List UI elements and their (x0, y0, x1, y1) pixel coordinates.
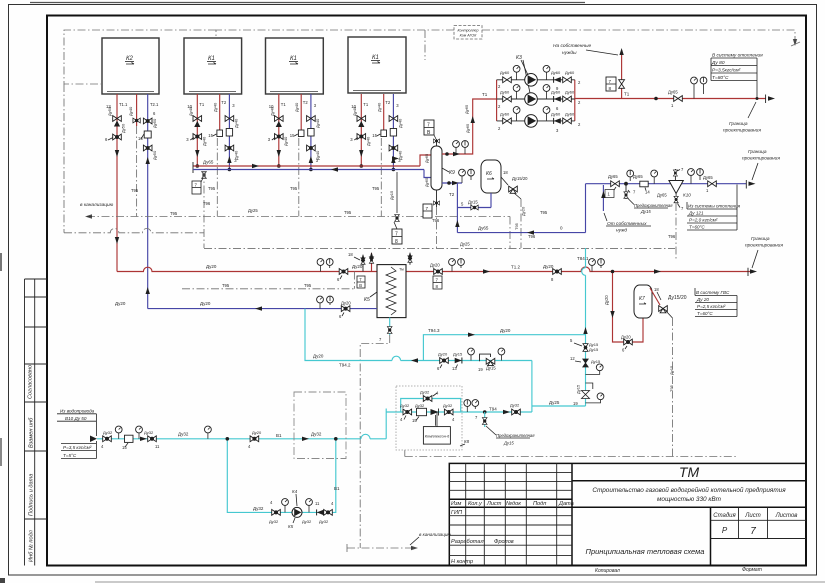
T94.1 riser with pressure regulator stack (570, 248, 604, 406)
strainer blowdown drain (675, 203, 677, 260)
svg-text:Граница: Граница (748, 149, 767, 155)
komplexon unit (396, 386, 470, 450)
boundary label (T1.2) (745, 236, 783, 268)
svg-text:Ду20: Ду20 (115, 301, 126, 306)
svg-text:Из водопровода: Из водопровода (60, 409, 95, 414)
K3 pump group (3 parallel pumps) (497, 55, 575, 121)
svg-text:Формат: Формат (742, 567, 762, 573)
svg-text:Ду65: Ду65 (464, 104, 469, 114)
svg-text:К10: К10 (683, 193, 691, 198)
long drain along title block (405, 450, 737, 457)
svg-text:Ду20: Ду20 (621, 335, 631, 340)
svg-text:Ду50: Ду50 (121, 123, 126, 133)
svg-text:в канализацию: в канализацию (419, 532, 451, 537)
svg-text:Ду32: Ду32 (415, 403, 425, 408)
blue boiler return header (193, 167, 431, 177)
svg-text:Т95: Т95 (304, 283, 312, 288)
T94.2 line (305, 309, 532, 412)
svg-text:Н контр: Н контр (451, 559, 473, 565)
controller box (454, 26, 482, 40)
boiler K1 #3 (266, 38, 324, 94)
K7 DHW tank (634, 285, 687, 457)
svg-text:Ду60: Ду60 (551, 70, 561, 75)
svg-text:К5: К5 (288, 524, 294, 529)
svg-text:Т=60°С: Т=60°С (697, 311, 713, 316)
svg-text:Т95: Т95 (540, 210, 548, 215)
svg-text:Ду15: Ду15 (576, 384, 581, 394)
svg-text:В систему ГВС: В систему ГВС (696, 290, 730, 295)
K6 expansion tank (457, 160, 528, 248)
svg-text:№док: №док (506, 501, 521, 507)
svg-text:Граница: Граница (729, 121, 748, 127)
booster pump loop K4 (226, 437, 341, 529)
dash-dot box (294, 392, 346, 459)
svg-text:Ду20: Ду20 (252, 430, 262, 435)
svg-text:Т96: Т96 (528, 234, 536, 239)
svg-text:12: 12 (570, 356, 575, 361)
svg-text:Комплексон-6: Комплексон-6 (425, 435, 450, 439)
flag 7/8 below header (389, 172, 402, 245)
svg-text:проектирования: проектирования (723, 129, 761, 134)
svg-text:мощностью 330 кВт: мощностью 330 кВт (657, 496, 722, 503)
svg-text:Ду65: Ду65 (633, 174, 643, 179)
svg-text:Ду32: Ду32 (103, 430, 113, 435)
svg-text:Ду32: Ду32 (144, 430, 154, 435)
svg-text:Ду15: Ду15 (669, 365, 674, 375)
svg-text:Ду20: Ду20 (313, 354, 324, 359)
pump row 3 (498, 107, 581, 133)
from own needs branch (601, 185, 651, 234)
svg-text:Ду20: Ду20 (352, 264, 363, 269)
svg-text:Подпись и дата: Подпись и дата (29, 474, 35, 516)
svg-text:19: 19 (573, 401, 578, 406)
svg-text:Ду50: Ду50 (152, 118, 157, 128)
svg-text:Ду65: Ду65 (203, 160, 214, 165)
svg-text:19: 19 (478, 367, 483, 372)
T94.3 line (423, 328, 585, 361)
svg-text:Ду20: Ду20 (438, 352, 448, 357)
svg-text:Ду20: Ду20 (430, 263, 440, 268)
boiler 4 drops (350, 94, 402, 217)
svg-text:Ду65: Ду65 (668, 90, 678, 95)
svg-text:В: В (359, 283, 362, 288)
svg-text:Т1: Т1 (482, 92, 488, 97)
svg-text:Контроллер: Контроллер (457, 29, 478, 33)
svg-text:Т96: Т96 (203, 201, 211, 206)
svg-text:Ду15: Ду15 (640, 209, 651, 214)
svg-text:Ду32: Ду32 (253, 506, 264, 511)
drain header A to sewer (80, 186, 548, 248)
svg-text:Ду60: Ду60 (500, 90, 510, 95)
svg-text:Т94.2: Т94.2 (339, 363, 351, 368)
svg-text:Ду15: Ду15 (468, 200, 478, 205)
svg-text:Ду25: Ду25 (248, 208, 258, 213)
svg-text:P=2,5 кгс/см²: P=2,5 кгс/см² (697, 304, 726, 309)
svg-text:Копировал: Копировал (595, 568, 620, 574)
svg-text:Дата: Дата (558, 501, 574, 507)
svg-text:К7: К7 (639, 296, 645, 302)
svg-text:Т95: Т95 (208, 186, 216, 191)
svg-text:Ду40: Ду40 (128, 106, 133, 116)
LEFT STAMP COLUMN (25, 279, 48, 566)
svg-text:Ду50: Ду50 (152, 150, 157, 160)
svg-text:Т1.1: Т1.1 (119, 102, 128, 107)
heating supply table (711, 53, 763, 101)
svg-text:К5: К5 (364, 297, 370, 303)
svg-text:P=3,5 кгс/см²: P=3,5 кгс/см² (63, 445, 92, 450)
svg-text:Ду15: Ду15 (389, 190, 394, 200)
svg-text:Тм: Тм (399, 268, 404, 272)
svg-text:Ду65: Ду65 (657, 193, 667, 198)
svg-text:Т95: Т95 (290, 186, 298, 191)
svg-text:Ду65: Ду65 (478, 226, 489, 231)
svg-text:18: 18 (348, 252, 353, 257)
svg-text:18: 18 (503, 170, 508, 175)
svg-text:Т95: Т95 (131, 188, 139, 193)
water inlet table (57, 409, 96, 459)
svg-text:Ду60: Ду60 (565, 112, 575, 117)
svg-text:Т95: Т95 (344, 210, 352, 215)
svg-text:Граница: Граница (751, 236, 770, 242)
svg-text:Принципиальная тепловая схема: Принципиальная тепловая схема (586, 547, 705, 556)
svg-text:Ду65: Ду65 (703, 175, 713, 180)
svg-text:Ду60: Ду60 (500, 112, 510, 117)
boiler K1 #2 (184, 38, 242, 94)
svg-text:Ду32: Ду32 (319, 519, 329, 524)
svg-text:P=2,0 кгс/см²: P=2,0 кгс/см² (689, 218, 718, 223)
svg-text:К4: К4 (292, 489, 298, 494)
svg-text:Т95: Т95 (372, 186, 380, 191)
svg-text:Предохранителная: Предохранителная (496, 433, 535, 438)
svg-text:Т84.1: Т84.1 (577, 256, 589, 261)
svg-text:Ду65: Ду65 (608, 174, 618, 179)
red boiler supply header (192, 155, 431, 248)
svg-text:Фролов: Фролов (494, 539, 514, 545)
svg-text:в канализацию: в канализацию (80, 203, 114, 208)
blue T2 line from K9 to return main (449, 183, 460, 233)
svg-text:К6: К6 (486, 171, 492, 177)
svg-text:Ду65: Ду65 (424, 177, 429, 187)
svg-text:Ду50: Ду50 (107, 106, 112, 116)
svg-text:ГИП: ГИП (451, 510, 463, 516)
svg-text:Ду25: Ду25 (549, 400, 560, 405)
pump row 2 (498, 85, 581, 111)
boiler K2 supply drop (red, down to T1.2) (105, 94, 128, 272)
cyan cold water main (90, 409, 386, 451)
boundary label (return) (742, 149, 780, 180)
svg-text:Т95: Т95 (669, 384, 674, 392)
svg-text:Ду15: Ду15 (589, 347, 599, 352)
svg-text:Т96: Т96 (432, 218, 440, 223)
svg-text:Т1: Т1 (624, 92, 630, 97)
svg-text:Т=60°С: Т=60°С (689, 225, 705, 230)
svg-text:8: 8 (395, 239, 398, 245)
svg-text:Ду32: Ду32 (443, 403, 453, 408)
svg-text:15: 15 (412, 418, 417, 423)
dark blue return of DHW exchanger (115, 296, 377, 319)
red branch to K7 DHW tank (604, 270, 643, 353)
svg-text:На собственные: На собственные (553, 43, 591, 49)
svg-text:8: 8 (609, 86, 612, 91)
boiler K2 middle drain drop (128, 94, 140, 217)
svg-text:Подп: Подп (533, 501, 546, 507)
svg-text:ТМ: ТМ (679, 464, 700, 480)
svg-text:Ду15/20: Ду15/20 (512, 176, 528, 181)
sewer line bottom (347, 456, 451, 552)
K9 bottom drain (436, 190, 438, 207)
svg-text:Ду32: Ду32 (420, 390, 430, 395)
red T1.2 line (DHW boiler circuit) (117, 252, 757, 289)
svg-text:Ду32: Ду32 (400, 403, 410, 408)
svg-text:Изм: Изм (451, 501, 462, 507)
heating return table (687, 185, 741, 231)
boiler 3 drops (268, 94, 320, 217)
svg-text:Т94: Т94 (489, 407, 497, 412)
svg-text:Ду20: Ду20 (206, 264, 217, 269)
TITLE BLOCK (449, 463, 806, 565)
boiler K2 return drop (blue, down to y308.6) (138, 94, 159, 309)
svg-text:Ду65: Ду65 (424, 153, 429, 163)
svg-text:Ду20: Ду20 (604, 295, 609, 305)
svg-text:Ду60: Ду60 (565, 90, 575, 95)
svg-text:Ду15: Ду15 (591, 359, 601, 364)
svg-text:7: 7 (609, 79, 612, 84)
svg-text:Т2.1: Т2.1 (150, 102, 159, 107)
svg-text:Ду25: Ду25 (460, 242, 470, 247)
svg-text:нужды: нужды (562, 50, 577, 56)
K5 bottom drain to T94.2 (360, 318, 392, 457)
strainer K10 (669, 181, 683, 194)
svg-text:Ду60: Ду60 (551, 90, 561, 95)
svg-text:Т=5°С: Т=5°С (63, 453, 77, 458)
svg-text:11: 11 (315, 501, 320, 506)
svg-text:Т95: Т95 (170, 211, 178, 216)
svg-text:Р: Р (722, 526, 728, 535)
svg-text:Ду20: Ду20 (500, 328, 511, 333)
safety drop on komplexon line (475, 410, 535, 445)
controller signal lines (64, 30, 795, 233)
svg-text:Ду60: Ду60 (551, 112, 561, 117)
svg-text:В1: В1 (334, 486, 340, 491)
svg-text:11: 11 (155, 444, 160, 449)
svg-text:Из системы отопления: Из системы отопления (688, 204, 741, 209)
svg-text:К9: К9 (449, 170, 455, 176)
boiler K1 #4 (348, 37, 406, 93)
svg-text:Строительство газовой водогрей: Строительство газовой водогрейной котель… (592, 486, 786, 494)
svg-text:проектирования: проектирования (742, 157, 780, 162)
svg-text:Ду 121: Ду 121 (688, 211, 704, 216)
svg-text:Ду15: Ду15 (503, 441, 514, 446)
K9 right top stub to pumps riser (442, 99, 497, 154)
svg-text:7: 7 (427, 123, 430, 129)
svg-text:проектирования: проектирования (745, 244, 783, 249)
boiler K2 (102, 38, 159, 94)
boiler 2 drops (186, 94, 238, 217)
drain header B (64, 229, 675, 249)
svg-text:нужд: нужд (616, 228, 627, 234)
svg-text:Ду20: Ду20 (521, 206, 526, 216)
svg-text:Т94.3: Т94.3 (428, 328, 440, 333)
svg-text:Согласовано: Согласовано (28, 365, 34, 399)
red supply line to heating system (575, 77, 775, 108)
svg-text:Лист: Лист (486, 501, 502, 507)
svg-text:7: 7 (750, 526, 756, 537)
svg-text:Ду60: Ду60 (500, 70, 510, 75)
svg-text:Ду20: Ду20 (341, 301, 351, 306)
svg-text:7: 7 (395, 232, 398, 238)
DHW table (695, 288, 737, 317)
scan mark bottom edge (95, 581, 825, 583)
svg-text:Т95: Т95 (514, 222, 519, 230)
K9 right bottom stub (442, 182, 462, 184)
scan mark top (30, 2, 585, 4)
svg-text:Ду 20: Ду 20 (696, 297, 709, 302)
return line components (605, 167, 716, 392)
svg-text:Т1.2: Т1.2 (511, 265, 521, 270)
K5 heat exchanger (182, 252, 412, 318)
pump row 1 (498, 65, 581, 91)
blue return main from system (457, 180, 755, 235)
svg-text:Ком АГОК: Ком АГОК (460, 34, 478, 38)
svg-text:15: 15 (122, 445, 127, 450)
own-needs branch (553, 43, 625, 99)
K9 separator vessel (423, 99, 497, 248)
svg-text:7: 7 (426, 206, 429, 211)
komplexon dosing line (386, 390, 585, 426)
svg-text:Ду15: Ду15 (453, 352, 463, 357)
svg-text:Стадия: Стадия (713, 513, 736, 519)
svg-text:Ду15/20: Ду15/20 (668, 295, 687, 301)
svg-text:Ду32: Ду32 (269, 519, 279, 524)
svg-text:Инб № подл: Инб № подл (29, 529, 35, 562)
svg-text:Лист: Лист (744, 513, 760, 519)
svg-text:Ду32: Ду32 (302, 519, 312, 524)
svg-text:Т96: Т96 (668, 234, 676, 239)
svg-text:Ду20: Ду20 (200, 301, 211, 306)
svg-text:Ду65: Ду65 (465, 123, 470, 133)
svg-text:Ду15: Ду15 (486, 366, 496, 371)
svg-text:Взамен инб: Взамен инб (29, 417, 35, 448)
svg-text:Разработал: Разработал (451, 539, 484, 545)
svg-text:К8: К8 (464, 439, 470, 444)
svg-text:В10 Ду 50: В10 Ду 50 (65, 416, 87, 421)
svg-text:Ду32: Ду32 (178, 432, 189, 437)
svg-text:Т95: Т95 (222, 283, 230, 288)
svg-text:18: 18 (654, 287, 659, 292)
svg-text:Ду32: Ду32 (311, 432, 322, 437)
svg-text:Листов: Листов (775, 513, 798, 519)
boundary label (supply) (723, 102, 761, 134)
svg-text:Предохранителная: Предохранителная (634, 203, 673, 208)
svg-text:Кол.у: Кол.у (468, 501, 483, 507)
svg-text:Ду60: Ду60 (565, 70, 575, 75)
svg-text:В1: В1 (276, 433, 282, 438)
svg-text:Т2: Т2 (449, 192, 455, 197)
svg-text:Ду32: Ду32 (510, 403, 520, 408)
